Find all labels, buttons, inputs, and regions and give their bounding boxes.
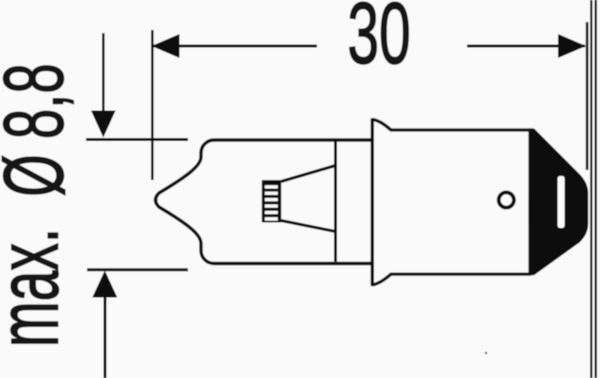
filament lead upper xyxy=(281,166,336,182)
contact slot xyxy=(558,176,565,228)
diameter dimension line upper xyxy=(86,138,188,141)
dimension line 30 right segment xyxy=(467,45,585,48)
dimension extension line left (lamp tip) xyxy=(151,30,154,180)
diameter arrow shaft upper xyxy=(102,33,105,113)
coil turn gap 5 xyxy=(265,211,278,214)
diameter dimension line lower xyxy=(87,268,188,271)
filament coil xyxy=(262,180,281,223)
glass envelope with sealed tip xyxy=(156,140,373,264)
filament lead lower xyxy=(281,221,336,232)
dimension extension line right (contact tip) xyxy=(586,22,589,170)
coil turn gap 4 xyxy=(265,204,278,207)
glass pinch line xyxy=(334,142,337,262)
dimension line 30 left segment xyxy=(152,45,317,48)
svg-text:max.: max. xyxy=(0,228,77,347)
arrowhead diameter lower (up) xyxy=(92,271,117,298)
coil turn gap 6 xyxy=(265,217,278,220)
coil turn gap 1 xyxy=(265,185,278,188)
arrowhead diameter upper (down) xyxy=(91,111,116,138)
svg-text:30: 30 xyxy=(347,0,410,82)
diameter arrow shaft lower xyxy=(104,296,107,378)
coil turn gap 2 xyxy=(265,192,278,195)
metal base outline xyxy=(372,120,531,285)
right page border line (outer) xyxy=(595,0,597,378)
base locating pin hole xyxy=(499,192,514,207)
arrowhead 30 right xyxy=(558,34,586,58)
arrowhead 30 left xyxy=(152,34,180,58)
insulated contact cone xyxy=(528,128,588,275)
right page border line (inner) xyxy=(590,0,592,378)
coil turn gap 3 xyxy=(265,198,278,201)
svg-text:Ø 8,8: Ø 8,8 xyxy=(0,63,81,197)
scan speck xyxy=(485,352,487,354)
